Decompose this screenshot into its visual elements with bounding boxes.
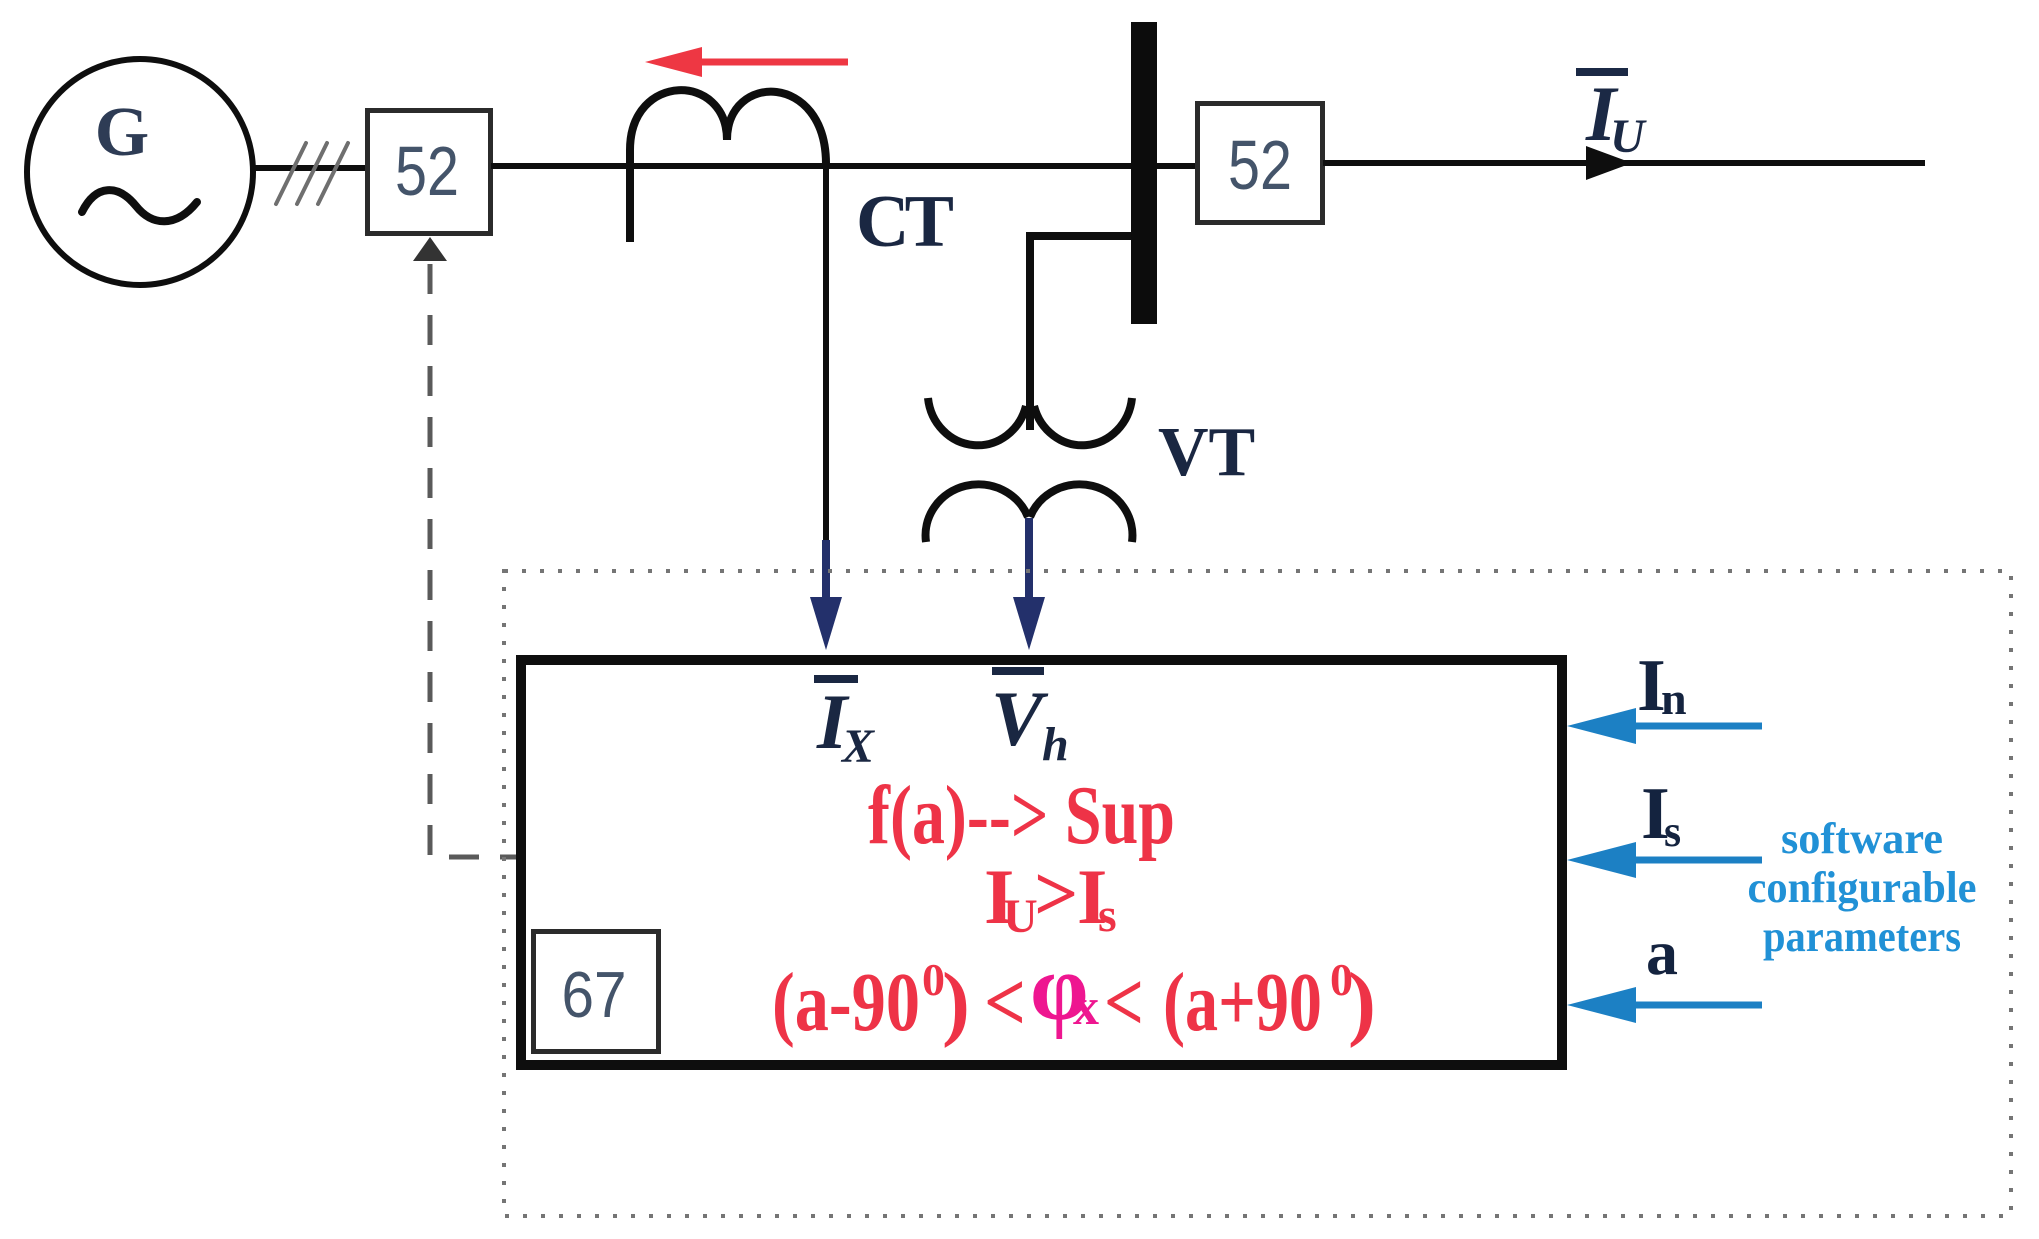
svg-text:): ) — [942, 956, 970, 1049]
input arrow a — [1567, 987, 1762, 1023]
svg-text:configurable: configurable — [1748, 863, 1977, 912]
label Is — [1641, 773, 1681, 856]
svg-text:(a+90: (a+90 — [1163, 956, 1322, 1049]
busbar — [1131, 22, 1157, 324]
relay text IU>Is — [984, 850, 1117, 943]
label I_U — [1576, 68, 1647, 163]
breaker 52 right — [1198, 104, 1323, 223]
transposition slashes — [276, 143, 348, 204]
relay box — [521, 660, 1562, 1065]
svg-text:h: h — [1042, 718, 1069, 771]
relay text (a-90)<phi_x<(a+90) — [772, 936, 1376, 1049]
VT secondary wire into relay — [1013, 518, 1045, 650]
label In — [1637, 645, 1687, 727]
CT (current transformer) — [630, 90, 826, 242]
label V_h — [991, 667, 1069, 771]
svg-text:<: < — [1104, 956, 1144, 1049]
svg-text:parameters: parameters — [1763, 912, 1961, 961]
svg-text:n: n — [1661, 673, 1687, 724]
svg-text:software: software — [1781, 814, 1943, 863]
device code box 67 — [534, 932, 659, 1052]
red reverse-power arrow — [645, 47, 848, 77]
dotted enclosure — [504, 571, 2011, 1216]
svg-text:67: 67 — [562, 958, 627, 1031]
svg-text:X: X — [840, 720, 875, 773]
svg-text:>: > — [1034, 850, 1078, 937]
svg-text:<: < — [984, 956, 1026, 1049]
breaker 52 left — [368, 111, 491, 234]
input arrow Is — [1567, 842, 1762, 878]
svg-text:V: V — [991, 675, 1049, 762]
svg-text:a: a — [1646, 917, 1678, 988]
svg-text:s: s — [1098, 889, 1117, 942]
svg-text:U: U — [1610, 110, 1647, 163]
CT secondary wire into relay — [810, 164, 842, 650]
svg-text:x: x — [1073, 979, 1099, 1036]
svg-text:CT: CT — [856, 181, 954, 263]
wire breaker right to line end with IU arrow — [1323, 146, 1925, 180]
trip signal dashed wire — [413, 237, 517, 857]
input arrow In — [1567, 708, 1762, 744]
svg-text:): ) — [1348, 956, 1376, 1049]
svg-text:f(a)--> Sup: f(a)--> Sup — [868, 769, 1175, 862]
svg-text:VT: VT — [1158, 414, 1255, 491]
VT (voltage transformer) — [926, 398, 1133, 542]
wire generator to breaker 52 left — [250, 165, 368, 171]
VT primary connection wire — [1030, 236, 1131, 430]
svg-text:52: 52 — [1228, 126, 1292, 204]
label software configurable parameters — [1748, 814, 1977, 961]
svg-text:s: s — [1664, 807, 1681, 856]
wire breaker to busbar to breaker right — [491, 163, 1197, 169]
svg-text:(a-90: (a-90 — [772, 956, 920, 1049]
svg-text:G: G — [95, 94, 149, 171]
generator G — [27, 59, 253, 285]
svg-text:52: 52 — [395, 132, 459, 210]
label I_X — [814, 675, 875, 773]
